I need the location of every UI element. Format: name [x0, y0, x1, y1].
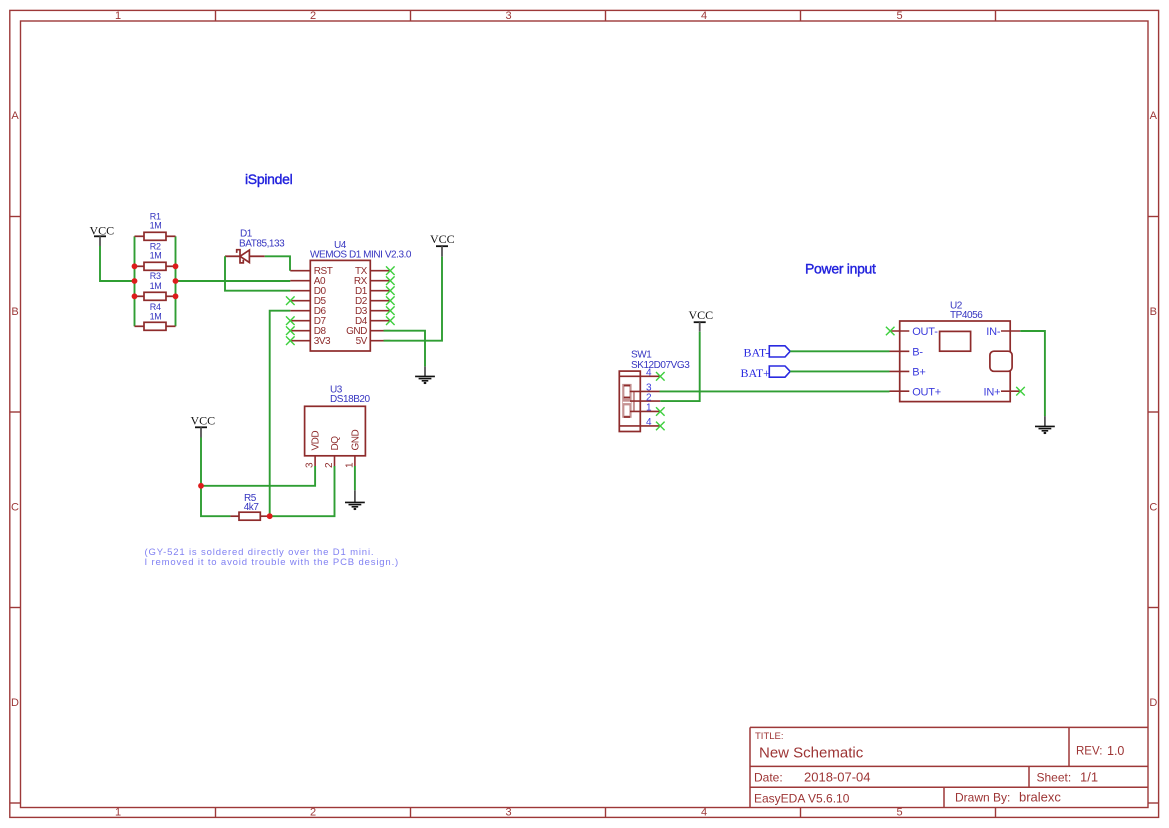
svg-text:C: C [11, 502, 19, 514]
svg-text:R3: R3 [150, 271, 161, 281]
junction dots resistor bank [132, 263, 179, 299]
switch SW1 SK12D07VG3 [619, 350, 690, 432]
svg-text:I removed it to avoid trouble: I removed it to avoid trouble with the P… [145, 557, 400, 568]
svg-text:5: 5 [896, 10, 902, 22]
svg-text:SK12D07VG3: SK12D07VG3 [631, 360, 690, 371]
wire D1 cathode to D0 [225, 256, 290, 290]
resistor R2 1M [135, 241, 176, 270]
svg-text:4k7: 4k7 [244, 502, 260, 513]
svg-text:VCC: VCC [430, 232, 455, 246]
U2 inner rounded rect [990, 351, 1012, 371]
U3 pin names (rotated) [311, 430, 362, 451]
svg-text:3V3: 3V3 [314, 336, 331, 347]
svg-text:GND: GND [350, 430, 361, 451]
wire VCC to resistor tap [100, 246, 135, 281]
no-connect X marks SW1 [656, 372, 665, 430]
net flag BAT- [744, 346, 791, 360]
svg-text:1: 1 [115, 807, 121, 819]
svg-text:1M: 1M [150, 251, 162, 261]
ground symbol (below U3) [345, 490, 365, 510]
svg-text:VCC: VCC [689, 308, 714, 322]
U2 pin stubs [890, 331, 1021, 391]
svg-text:OUT-: OUT- [912, 326, 938, 338]
svg-text:DS18B20: DS18B20 [330, 394, 371, 405]
svg-text:Sheet:: Sheet: [1037, 771, 1072, 785]
svg-text:VDD: VDD [311, 431, 322, 451]
svg-text:VCC: VCC [90, 224, 115, 238]
svg-text:A: A [1150, 110, 1158, 122]
svg-text:4: 4 [646, 367, 652, 378]
svg-text:B: B [1150, 306, 1157, 318]
svg-text:B+: B+ [912, 367, 925, 379]
svg-text:1/1: 1/1 [1080, 770, 1098, 785]
svg-text:BAT+: BAT+ [741, 366, 771, 380]
svg-text:2018-07-04: 2018-07-04 [804, 770, 871, 785]
svg-text:iSpindel: iSpindel [245, 171, 293, 187]
no-connect X marks U4 [286, 266, 395, 345]
diode D1 BAT85,133 [225, 229, 285, 263]
wire IN- to ground [1020, 331, 1045, 416]
wire 5V to VCC [384, 257, 443, 341]
IC U3 DS18B20 [305, 385, 371, 469]
svg-text:IN-: IN- [986, 326, 1001, 338]
U2 inner rect [940, 331, 971, 351]
svg-text:REV:: REV: [1076, 746, 1102, 758]
svg-text:2: 2 [324, 462, 335, 468]
SW1 pin numbers [646, 367, 652, 428]
svg-text:4: 4 [701, 807, 707, 819]
svg-text:BAT85,133: BAT85,133 [239, 239, 285, 250]
svg-text:4: 4 [701, 10, 707, 22]
svg-text:5: 5 [896, 807, 902, 819]
svg-text:3: 3 [505, 10, 511, 22]
svg-text:D: D [1149, 697, 1157, 709]
svg-text:1M: 1M [150, 312, 162, 322]
U3 pin numbers [305, 462, 356, 468]
wire tap to A0 [176, 280, 291, 282]
wire VCC to SW1 pin2 [660, 332, 699, 401]
svg-text:TITLE:: TITLE: [755, 731, 784, 742]
power flag VCC (power input) [689, 308, 714, 332]
svg-text:R4: R4 [150, 302, 161, 312]
resistor R4 1M [135, 302, 176, 330]
power flag VCC (left of U3) [191, 414, 216, 438]
svg-text:1: 1 [344, 462, 355, 468]
svg-text:B-: B- [912, 347, 923, 359]
resistor R5 4k7 [230, 493, 269, 520]
ground symbol (below U4) [415, 366, 435, 384]
wire D1 anode to RST [265, 256, 290, 270]
power flag VCC (net VCC, left of R1-R4) [90, 224, 115, 247]
svg-text:TP4056: TP4056 [950, 310, 983, 321]
TITLE BLOCK [750, 727, 1148, 807]
wire D6 down to R5/DQ [270, 311, 291, 517]
no-connect X marks U2 [886, 327, 1025, 396]
SW1 pin stubs [619, 376, 660, 426]
wire junction to VDD [201, 466, 315, 486]
svg-text:WEMOS D1 MINI V2.3.0: WEMOS D1 MINI V2.3.0 [310, 250, 412, 261]
svg-text:2: 2 [310, 10, 316, 22]
resistor R1 1M [135, 211, 176, 240]
wire right rail of resistor bank [175, 236, 177, 326]
svg-text:A: A [11, 110, 19, 122]
svg-text:Drawn By:: Drawn By: [955, 791, 1010, 805]
svg-text:1.0: 1.0 [1107, 744, 1124, 758]
svg-text:2: 2 [310, 807, 316, 819]
U4 right pin stubs [370, 271, 390, 341]
wire U3 GND to ground [354, 466, 356, 490]
svg-text:Date:: Date: [754, 771, 783, 785]
svg-text:1: 1 [646, 403, 652, 414]
SW1 actuator (pale outline + knob) [623, 385, 630, 417]
U3 pin stubs (bottom) [315, 456, 355, 466]
svg-text:1: 1 [115, 10, 121, 22]
U2 pin names [912, 326, 941, 398]
IC U2 TP4056 [890, 301, 1021, 402]
svg-text:OUT+: OUT+ [912, 386, 941, 398]
wire BAT- to B- [790, 350, 889, 352]
wire R5 to DQ [270, 466, 335, 516]
U4 pin names [314, 266, 333, 347]
svg-text:D: D [11, 697, 19, 709]
svg-text:Power input: Power input [805, 261, 876, 277]
svg-text:C: C [1149, 502, 1157, 514]
svg-text:BAT-: BAT- [744, 346, 770, 360]
svg-text:1M: 1M [150, 220, 162, 230]
note text [145, 547, 400, 568]
svg-text:5V: 5V [356, 336, 368, 347]
resistor R3 1M [135, 271, 176, 301]
net flag BAT+ [741, 366, 791, 380]
svg-text:VCC: VCC [191, 414, 216, 428]
U4 left pin stubs [290, 271, 310, 341]
svg-text:SW1: SW1 [631, 350, 652, 361]
wire GND pin to ground [384, 331, 426, 367]
IC U4 WEMOS D1 MINI V2.3.0 [290, 240, 412, 351]
ground symbol (below U2) [1035, 416, 1055, 434]
svg-text:B: B [11, 306, 18, 318]
wire left rail of resistor bank [134, 236, 136, 326]
junction dot VCC/VDD [198, 483, 204, 489]
svg-text:3: 3 [305, 462, 316, 468]
wire VCC down through junction to R5 [201, 438, 230, 517]
svg-text:IN+: IN+ [983, 386, 1000, 398]
junction dot R5/D6/DQ [267, 513, 273, 519]
svg-text:3: 3 [505, 807, 511, 819]
svg-text:4: 4 [646, 417, 652, 428]
wire SW1 pin3 to OUT+ [660, 390, 890, 392]
svg-text:DQ: DQ [330, 436, 341, 451]
svg-text:1M: 1M [150, 281, 162, 291]
svg-text:bralexc: bralexc [1019, 790, 1061, 805]
wire BAT+ to B+ [790, 370, 889, 372]
svg-text:EasyEDA V5.6.10: EasyEDA V5.6.10 [754, 792, 850, 806]
power flag VCC (right of U4) [430, 232, 455, 257]
svg-text:New Schematic: New Schematic [759, 745, 864, 762]
